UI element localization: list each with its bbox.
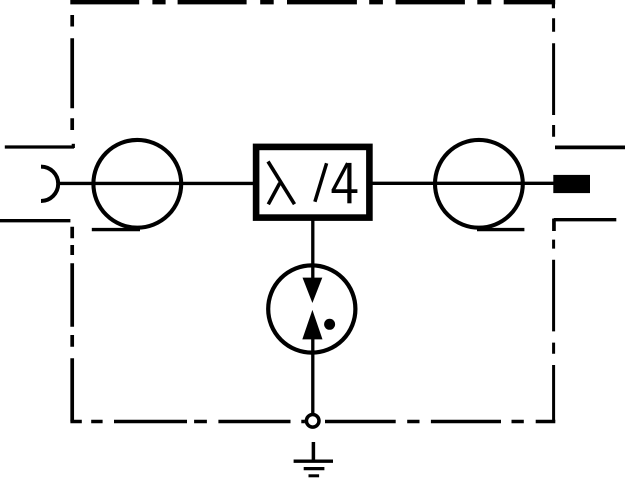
coax input shield lead top-left xyxy=(5,145,74,148)
ground bar 1 xyxy=(294,460,333,463)
enclosure top border (dash-dot) xyxy=(70,0,555,4)
wire: gas discharge tube down to terminal xyxy=(311,339,314,414)
label slash xyxy=(315,163,327,202)
gas discharge tube lower electrode (triangle up) xyxy=(302,310,322,340)
right bushing ground tangent line xyxy=(477,228,524,231)
gas discharge tube upper electrode (triangle down) xyxy=(303,278,323,303)
coax input shield lead bottom-left xyxy=(0,219,70,222)
coax output pin (filled rectangle) xyxy=(553,175,590,193)
feed-through bushing left (circle) xyxy=(93,140,181,228)
label 4 xyxy=(332,163,358,203)
gas discharge tube F1 (circle) xyxy=(268,265,355,352)
enclosure bottom border (dash-dot) xyxy=(70,420,555,423)
ground bar 2 xyxy=(304,467,325,470)
wire: box down to gas discharge tube xyxy=(311,217,314,279)
enclosure right border (dash-dot) xyxy=(552,18,555,421)
coax output shield lead top-right xyxy=(555,145,625,149)
coax output shield lead bottom-right xyxy=(554,218,617,221)
enclosure left border (dash-dot) xyxy=(70,15,74,422)
earth terminal (small circle) xyxy=(306,415,319,428)
ground bar 3 xyxy=(309,474,320,477)
ground stem xyxy=(312,442,316,461)
coax input shield lead end tick xyxy=(72,144,75,148)
wire: lambda/4 box to output pin xyxy=(369,182,554,185)
gas discharge tube gas-filled indicator dot xyxy=(324,319,335,330)
coax output shield lead corner stub xyxy=(553,219,556,231)
wire: input to lambda/4 box xyxy=(58,182,256,185)
coax input connector J1 (socket arc) xyxy=(41,167,58,201)
enclosure top-right corner stub xyxy=(552,0,555,8)
left bushing ground tangent line xyxy=(92,228,140,231)
feed-through bushing right (circle) xyxy=(435,140,523,228)
label lambda xyxy=(268,162,295,205)
quarter-wave stub Z1 (lambda/4 box) xyxy=(256,147,369,218)
